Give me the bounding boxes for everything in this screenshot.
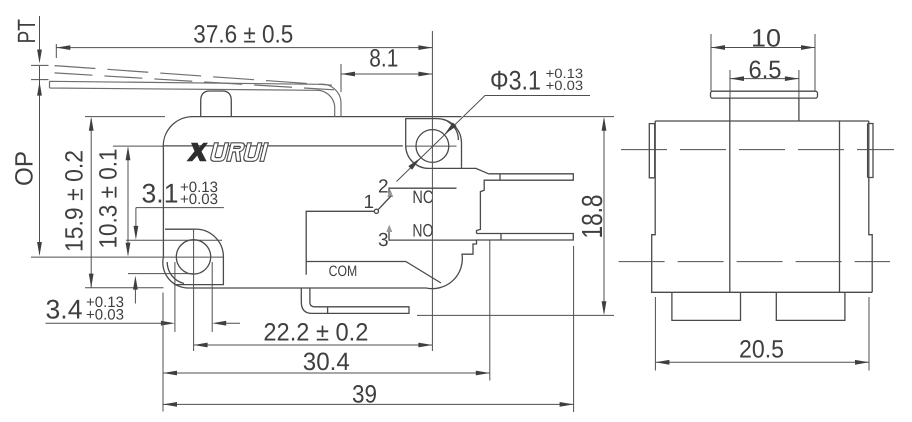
logo X [186, 143, 208, 162]
lever dashed lower line [55, 73, 335, 90]
dim 15.9 arrow up [89, 117, 94, 131]
svg-text:2: 2 [378, 177, 389, 198]
right view flange [711, 91, 818, 98]
right view right tab [868, 124, 873, 178]
svg-text:10: 10 [751, 25, 781, 53]
svg-text:22.2 ± 0.2: 22.2 ± 0.2 [263, 319, 368, 347]
hole bottom tangent line [128, 273, 194, 275]
OP arrow down [37, 242, 42, 256]
crosshair bottom hole horizontal [31, 256, 224, 258]
body outline [163, 117, 477, 289]
dim 20.5 arrow left [655, 360, 669, 365]
svg-text:8.1: 8.1 [369, 44, 398, 72]
dim 3.4 arrow left [212, 321, 226, 326]
svg-text:Φ3.1: Φ3.1 [490, 66, 541, 96]
hole side extension right [211, 262, 213, 332]
svg-text:OP: OP [10, 151, 38, 186]
dim 22.2 arrow right [418, 343, 432, 348]
PT arrow down [37, 50, 42, 64]
svg-text:39: 39 [352, 381, 377, 409]
internal bottom plate [306, 262, 441, 284]
internal NC contact line [389, 188, 457, 196]
svg-text:NO: NO [412, 221, 433, 241]
dim 39 line [163, 246, 574, 412]
terminal pin NC top [489, 174, 574, 180]
extension line x=432 vertical [431, 31, 433, 351]
PT OP vertical line [31, 16, 49, 254]
boss bottom-left [165, 229, 223, 284]
dim 3.1 arrow down [134, 226, 139, 240]
svg-text:+0.03: +0.03 [86, 307, 124, 324]
dim 18.8 arrow up [602, 117, 607, 131]
dim 3.1 arrow up [133, 276, 138, 290]
dim 3.4 arrow right [161, 321, 175, 326]
svg-text:6.5: 6.5 [749, 56, 782, 84]
PT arrow up [37, 82, 42, 96]
logo URUI [210, 143, 269, 162]
terminal pin COM bottom [301, 288, 409, 313]
hole top tangent line [126, 239, 222, 241]
hole top-right circle [416, 130, 449, 163]
svg-text:3.1: 3.1 [142, 179, 179, 209]
dim 22.2 arrow left [194, 343, 208, 348]
internal pivot circle [374, 209, 378, 213]
crosshair top hole horizontal [406, 145, 457, 147]
right view hidden dash line 2 [619, 261, 890, 263]
terminal pin NO bottom [477, 234, 574, 241]
svg-text:PT: PT [13, 19, 41, 44]
svg-text:COM: COM [329, 263, 358, 280]
dim 30.4 line [163, 241, 490, 412]
arrow on diagonal upper [445, 123, 457, 135]
dim 20.5 line [655, 297, 869, 371]
dim 8.1 arrow left [341, 72, 355, 77]
dim 6.5 arrow right [785, 76, 799, 81]
dim 39 arrow right [560, 402, 574, 407]
right view plunger stem right [798, 98, 800, 121]
dim 18.8 arrow down [602, 301, 607, 315]
svg-text:10.3 ± 0.1: 10.3 ± 0.1 [95, 149, 123, 249]
dim 37.6 arrow left [56, 45, 70, 50]
dim 39 arrow left [163, 402, 177, 407]
svg-text:37.6 ± 0.5: 37.6 ± 0.5 [193, 21, 293, 49]
dim 10.3 line [113, 146, 163, 255]
dim 15.9 arrow down [89, 274, 94, 288]
dim 3.1 left leader [136, 208, 224, 226]
internal NO small arrow [386, 225, 392, 233]
dim 18.8 line [417, 117, 614, 316]
right view internal vertical left [729, 98, 731, 292]
svg-text:15.9 ± 0.2: 15.9 ± 0.2 [61, 150, 89, 252]
dim 3.1 leader below [134, 289, 136, 304]
diagonal leader for hole [397, 96, 591, 182]
svg-text:3: 3 [378, 230, 389, 251]
right view foot right [776, 292, 845, 320]
crosshair bottom hole vertical [193, 230, 195, 351]
inner top line [163, 145, 402, 147]
dim 10.3 arrow down [126, 243, 131, 257]
internal blade [378, 196, 391, 210]
svg-text:NC: NC [412, 187, 433, 207]
right view body outline [652, 121, 873, 292]
dim 3.4 leader [46, 322, 241, 324]
dim 8.1 line [341, 64, 432, 92]
dim 10 arrow left [711, 45, 725, 50]
dim 8.1 arrow right [418, 72, 432, 77]
body right edge upper [462, 166, 489, 233]
dim 30.4 arrow right [476, 371, 490, 376]
svg-text:18.8: 18.8 [577, 195, 609, 239]
dim 10 arrow right [801, 45, 815, 50]
right view left tab [649, 124, 654, 178]
hole side extension left [174, 262, 176, 332]
internal COM wire [306, 211, 374, 274]
lever solid [50, 81, 342, 116]
dim 6.5 arrow left [730, 76, 744, 81]
dim 10 line [711, 34, 815, 91]
svg-text:3.4: 3.4 [46, 295, 83, 325]
svg-text:+0.03: +0.03 [180, 191, 218, 208]
plunger bump [201, 91, 232, 117]
internal NC small arrow [387, 190, 393, 198]
lever dashed upper line [55, 66, 333, 86]
right view hidden dash line 1 [621, 149, 894, 151]
svg-text:20.5: 20.5 [739, 335, 784, 363]
svg-text:30.4: 30.4 [303, 348, 350, 376]
dim 37.6 arrow right [418, 45, 432, 50]
right view foot left [672, 292, 741, 320]
internal NO contact line [389, 232, 477, 241]
hole bottom-left circle [176, 240, 210, 274]
arrow on diagonal lower [408, 158, 420, 170]
svg-text:+0.03: +0.03 [546, 78, 584, 93]
right view internal vertical right [839, 120, 841, 292]
dim 15.9 line [85, 117, 165, 288]
dim 22.2 line [194, 344, 433, 346]
dim 37.6 line [56, 44, 432, 58]
dim 30.4 arrow left [163, 371, 177, 376]
svg-text:1: 1 [364, 192, 375, 213]
dim 20.5 arrow right [855, 360, 869, 365]
dim 6.5 line [730, 70, 799, 99]
dim 10.3 arrow up [126, 146, 131, 160]
boss top-right [406, 119, 462, 169]
